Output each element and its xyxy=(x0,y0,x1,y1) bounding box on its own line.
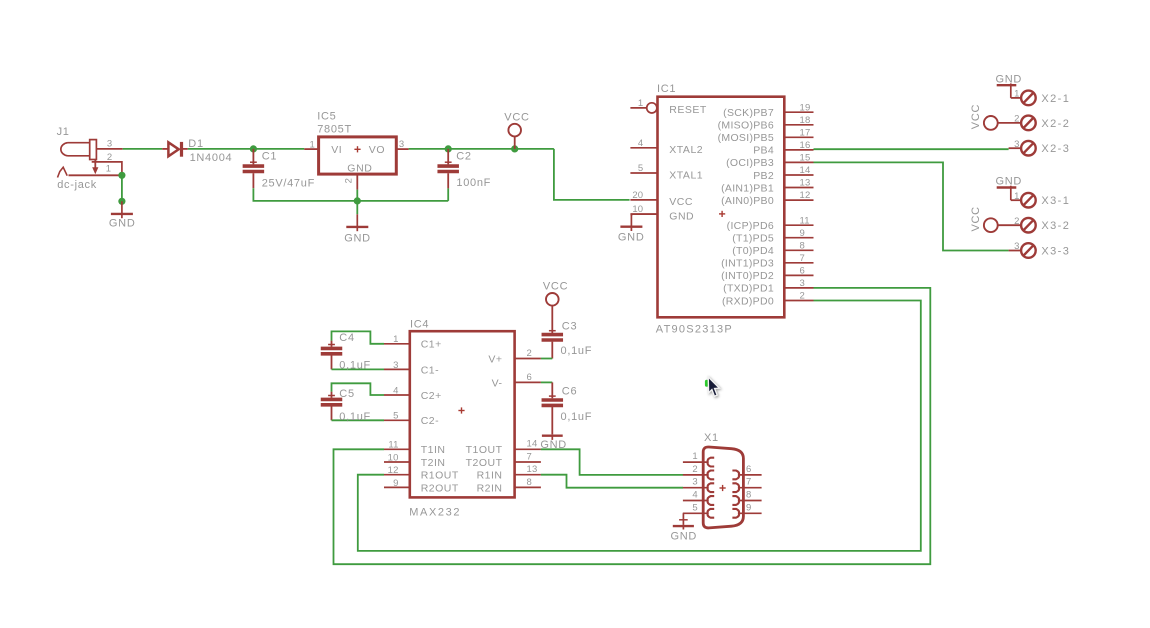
capacitor C6 0,1uF xyxy=(542,382,564,434)
svg-text:19: 19 xyxy=(800,102,811,113)
svg-text:VCC: VCC xyxy=(504,111,529,123)
pad X3-1 xyxy=(1011,193,1036,208)
IC4 pin 5 C2- xyxy=(384,419,410,421)
svg-text:14: 14 xyxy=(527,439,538,450)
svg-text:12: 12 xyxy=(800,190,811,201)
svg-text:V-: V- xyxy=(492,377,503,389)
svg-text:1: 1 xyxy=(692,451,697,462)
svg-text:9: 9 xyxy=(746,502,751,513)
IC1 pin 9 (T1)PD5 xyxy=(784,237,813,239)
junction at VCC xyxy=(511,145,518,152)
capacitor C5 0,1uF xyxy=(321,392,343,421)
junction at C1 xyxy=(250,145,257,152)
svg-text:20: 20 xyxy=(632,190,643,201)
svg-text:(INT0)PD2: (INT0)PD2 xyxy=(721,270,774,282)
X1 origin cross xyxy=(720,485,726,491)
microcontroller IC1 AT90S2313P xyxy=(658,97,785,318)
svg-text:2: 2 xyxy=(1014,216,1019,227)
wire IC5 output to VCC rail xyxy=(409,148,554,150)
svg-text:1: 1 xyxy=(638,98,643,109)
IC4 pin 13 R1IN xyxy=(515,474,541,476)
wire C5 bottom to IC4 pin 5 xyxy=(332,419,385,421)
svg-text:XTAL1: XTAL1 xyxy=(669,169,703,181)
svg-text:4: 4 xyxy=(692,490,697,501)
svg-text:(T0)PD4: (T0)PD4 xyxy=(732,245,774,257)
wire IC1 pin 16 to X2-3 xyxy=(814,148,1009,150)
J1 pin 3 xyxy=(96,148,122,150)
svg-text:C1: C1 xyxy=(262,151,277,163)
svg-text:T2IN: T2IN xyxy=(421,457,446,469)
wire X1 pin 5 to ground xyxy=(679,513,688,525)
svg-text:25V/47uF: 25V/47uF xyxy=(262,178,315,190)
svg-text:13: 13 xyxy=(800,178,811,189)
pad X2-2 xyxy=(1021,116,1036,131)
svg-text:5: 5 xyxy=(393,411,398,422)
svg-text:15: 15 xyxy=(800,153,811,164)
junction at IC5 GND xyxy=(354,197,361,204)
wire C5 top to IC4 pin 4 xyxy=(332,383,385,395)
svg-text:XTAL2: XTAL2 xyxy=(669,144,703,156)
wire J1 to ground xyxy=(121,175,123,201)
svg-text:3: 3 xyxy=(107,139,112,150)
svg-text:5: 5 xyxy=(638,163,643,174)
svg-text:GND: GND xyxy=(344,232,371,244)
svg-text:2: 2 xyxy=(107,152,112,163)
svg-text:(RXD)PD0: (RXD)PD0 xyxy=(722,295,774,307)
wire C2 to GND rail xyxy=(447,188,449,201)
svg-text:14: 14 xyxy=(800,165,811,176)
ground symbol below C6 xyxy=(542,434,563,440)
svg-text:(MOSI)PB5: (MOSI)PB5 xyxy=(718,132,774,144)
svg-text:1: 1 xyxy=(393,334,398,345)
wire VCC rail to IC1 pin 20 xyxy=(554,149,630,200)
VCC supply symbol at X2-2 xyxy=(984,116,1021,130)
IC4 pin 9 R2OUT xyxy=(384,486,410,488)
wire T1OUT to X1 pin 2 xyxy=(541,449,683,475)
wire R1IN to X1 pin 3 xyxy=(541,475,683,488)
IC1 pin 3 (TXD)PD1 xyxy=(784,287,813,289)
svg-text:PB2: PB2 xyxy=(753,170,774,182)
X1 pin 4 xyxy=(683,496,714,505)
svg-text:R1IN: R1IN xyxy=(477,470,503,482)
IC5 origin cross xyxy=(354,146,360,152)
svg-text:1N4004: 1N4004 xyxy=(190,152,233,164)
svg-text:10: 10 xyxy=(388,452,399,463)
svg-text:GND: GND xyxy=(347,163,372,175)
svg-text:1: 1 xyxy=(310,140,315,151)
IC5 pin 2 GND stub xyxy=(356,174,358,190)
svg-text:3: 3 xyxy=(800,278,805,289)
svg-text:0,1uF: 0,1uF xyxy=(561,345,593,357)
mouse cursor xyxy=(705,377,720,396)
svg-text:(AIN1)PB1: (AIN1)PB1 xyxy=(721,182,774,194)
svg-text:8: 8 xyxy=(800,240,805,251)
IC4 pin 3 C1- xyxy=(384,368,410,370)
svg-text:13: 13 xyxy=(527,464,538,475)
svg-text:IC5: IC5 xyxy=(317,111,336,123)
svg-text:2: 2 xyxy=(692,464,697,475)
svg-text:RESET: RESET xyxy=(669,104,707,116)
svg-text:0,1uF: 0,1uF xyxy=(339,411,371,423)
svg-text:11: 11 xyxy=(388,440,398,451)
ground symbol below J1 xyxy=(111,201,133,218)
svg-text:7805T: 7805T xyxy=(317,123,352,135)
svg-text:8: 8 xyxy=(527,477,532,488)
capacitor C3 0,1uF xyxy=(542,331,564,359)
ground symbol below IC1 pin 10 xyxy=(620,214,642,231)
svg-text:dc-jack: dc-jack xyxy=(57,179,97,191)
pad X2-1 xyxy=(1011,91,1036,106)
IC1 pin 15 (OCI)PB3 xyxy=(784,161,813,163)
IC4 origin cross xyxy=(458,407,464,413)
wire IC1 pin 3 TXD to MAX232 T1IN xyxy=(334,288,931,564)
svg-text:GND: GND xyxy=(618,231,645,243)
wire IC5 GND to ground xyxy=(356,190,358,215)
svg-text:C2: C2 xyxy=(456,151,471,163)
svg-text:2: 2 xyxy=(527,348,532,359)
svg-text:C2+: C2+ xyxy=(421,390,442,402)
svg-text:IC4: IC4 xyxy=(410,319,429,331)
svg-text:3: 3 xyxy=(1014,139,1019,150)
J1 pin 2 xyxy=(92,162,122,175)
IC5 pin 3 stub xyxy=(396,148,408,150)
svg-text:C5: C5 xyxy=(339,388,354,400)
svg-text:GND: GND xyxy=(996,176,1023,188)
svg-text:3: 3 xyxy=(692,477,697,488)
IC4 pin 1 C1+ xyxy=(384,343,410,345)
IC4 pin 8 R2IN xyxy=(515,486,541,488)
voltage regulator IC5 7805T xyxy=(319,137,397,174)
svg-text:GND: GND xyxy=(109,217,136,229)
svg-text:VI: VI xyxy=(331,144,342,156)
IC1 pin 17 (MOSI)PB5 xyxy=(784,136,813,138)
X1 pin 6 xyxy=(732,471,761,480)
svg-text:T1IN: T1IN xyxy=(421,444,446,456)
svg-text:GND: GND xyxy=(669,210,694,222)
IC5 pin 1 stub xyxy=(304,148,318,150)
svg-text:8: 8 xyxy=(746,490,751,501)
svg-text:C3: C3 xyxy=(562,321,577,333)
svg-text:T1OUT: T1OUT xyxy=(466,444,503,456)
IC1 pin 20 VCC xyxy=(630,199,657,201)
svg-text:16: 16 xyxy=(800,140,811,151)
svg-text:VCC: VCC xyxy=(970,104,982,129)
svg-text:7: 7 xyxy=(746,477,751,488)
IC4 pin 7 T2OUT xyxy=(515,461,541,463)
svg-text:(MISO)PB6: (MISO)PB6 xyxy=(718,120,774,132)
svg-text:18: 18 xyxy=(800,115,811,126)
svg-text:(INT1)PD3: (INT1)PD3 xyxy=(721,258,774,270)
svg-text:(TXD)PD1: (TXD)PD1 xyxy=(723,283,774,295)
IC4 pin 6 V- xyxy=(515,381,541,383)
diode D1 1N4004 xyxy=(162,142,188,157)
svg-text:2: 2 xyxy=(1014,114,1019,125)
svg-text:VCC: VCC xyxy=(970,206,982,231)
svg-text:X3-1: X3-1 xyxy=(1041,195,1070,207)
wire IC4 pin 2 to C3 xyxy=(541,358,552,360)
svg-text:R2OUT: R2OUT xyxy=(421,482,459,494)
svg-text:(OCI)PB3: (OCI)PB3 xyxy=(726,157,774,169)
wire C4 bottom to IC4 pin 3 xyxy=(332,368,385,370)
svg-text:GND: GND xyxy=(996,73,1023,85)
svg-text:12: 12 xyxy=(388,465,399,476)
svg-text:9: 9 xyxy=(393,478,398,489)
IC1 pin 6 (INT0)PD2 xyxy=(784,274,813,276)
svg-text:C6: C6 xyxy=(562,386,577,398)
junction on J1 ground wire xyxy=(118,198,125,205)
svg-text:C1+: C1+ xyxy=(421,339,442,351)
IC1 pin 18 (MISO)PB6 xyxy=(784,124,813,126)
IC1 pin 7 (INT1)PD3 xyxy=(784,262,813,264)
IC1 pin 11 (ICP)PD6 xyxy=(784,224,813,226)
IC1 pin 10 GND xyxy=(630,213,657,215)
X1 pin 9 xyxy=(732,509,761,518)
pad X2-3 xyxy=(1009,141,1036,156)
svg-text:11: 11 xyxy=(800,215,810,226)
IC1 pin 16 PB4 xyxy=(784,149,813,151)
svg-text:2: 2 xyxy=(343,178,354,183)
capacitor C2 100nF xyxy=(437,149,459,189)
svg-text:R2IN: R2IN xyxy=(477,482,503,494)
svg-text:17: 17 xyxy=(800,127,811,138)
svg-text:MAX232: MAX232 xyxy=(409,507,461,519)
svg-text:VO: VO xyxy=(369,144,385,156)
svg-text:100nF: 100nF xyxy=(456,177,491,189)
IC4 pin 4 C2+ xyxy=(384,394,410,396)
svg-text:X3-2: X3-2 xyxy=(1041,220,1070,232)
svg-text:7: 7 xyxy=(527,451,532,462)
ground symbol above X2-1 xyxy=(997,83,1017,98)
IC1 pin 4 XTAL2 xyxy=(630,147,657,149)
IC4 pin 10 T2IN xyxy=(384,461,410,463)
VCC supply symbol xyxy=(508,124,521,149)
ground symbol below IC5 xyxy=(346,214,368,231)
svg-text:X2-1: X2-1 xyxy=(1041,93,1070,105)
IC1 pin 1 RESET xyxy=(630,103,657,113)
IC1 pin 19 (SCK)PB7 xyxy=(784,111,813,113)
wire IC1 pin 2 RXD to MAX232 R1OUT xyxy=(358,301,921,551)
IC1 pin 2 (RXD)PD0 xyxy=(784,300,813,302)
svg-text:9: 9 xyxy=(800,228,805,239)
svg-text:VCC: VCC xyxy=(543,280,568,292)
svg-text:VCC: VCC xyxy=(669,196,693,208)
svg-text:X2-2: X2-2 xyxy=(1041,118,1070,130)
svg-text:(ICP)PD6: (ICP)PD6 xyxy=(727,220,774,232)
svg-text:3: 3 xyxy=(393,360,398,371)
J1 pin 1 xyxy=(69,174,122,176)
capacitor C1 25V/47uF xyxy=(243,149,265,188)
svg-text:1: 1 xyxy=(1014,89,1019,100)
X1 pin 8 xyxy=(732,496,761,505)
VCC supply symbol at X3-2 xyxy=(984,218,1021,232)
IC4 pin 11 T1IN xyxy=(384,448,410,450)
IC4 pin 14 T1OUT xyxy=(515,448,541,450)
svg-text:AT90S2313P: AT90S2313P xyxy=(656,324,733,336)
svg-text:3: 3 xyxy=(1014,241,1019,252)
IC1 pin 13 (AIN1)PB1 xyxy=(784,187,813,189)
ground symbol below X1 pin 5 xyxy=(673,525,694,530)
X1 pin 3 xyxy=(683,483,714,492)
junction at J1 pin 1 xyxy=(118,172,125,179)
pad X3-2 xyxy=(1021,218,1036,233)
IC1 pin 12 (AIN0)PB0 xyxy=(784,199,813,201)
svg-text:6: 6 xyxy=(746,464,751,475)
svg-text:5: 5 xyxy=(692,502,697,513)
svg-text:1: 1 xyxy=(1014,191,1019,202)
svg-text:4: 4 xyxy=(638,138,643,149)
wire D1 to IC5 input xyxy=(188,148,304,150)
svg-text:0,1uF: 0,1uF xyxy=(339,359,371,371)
svg-text:(T1)PD5: (T1)PD5 xyxy=(732,233,774,245)
wire C4 top to IC4 pin 1 xyxy=(332,331,385,343)
connector X1 DB9 xyxy=(703,447,743,528)
driver IC4 MAX232 xyxy=(410,331,515,497)
svg-text:6: 6 xyxy=(800,266,805,277)
wire IC1 pin 10 to ground xyxy=(631,214,656,216)
IC1 pin 5 XTAL1 xyxy=(630,172,657,174)
svg-text:4: 4 xyxy=(393,385,398,396)
svg-text:J1: J1 xyxy=(57,126,70,138)
svg-text:(AIN0)PB0: (AIN0)PB0 xyxy=(721,195,774,207)
svg-text:R1OUT: R1OUT xyxy=(421,470,459,482)
wire C1 to GND rail xyxy=(253,188,448,201)
svg-text:0,1uF: 0,1uF xyxy=(561,411,593,423)
svg-text:(SCK)PB7: (SCK)PB7 xyxy=(723,107,774,119)
svg-text:2: 2 xyxy=(800,291,805,302)
IC1 origin cross xyxy=(719,211,725,217)
svg-text:C2-: C2- xyxy=(421,415,439,427)
svg-text:T2OUT: T2OUT xyxy=(466,457,503,469)
VCC supply symbol above C3 xyxy=(546,293,559,333)
svg-text:X3-3: X3-3 xyxy=(1041,246,1070,258)
pad X3-3 xyxy=(1009,243,1036,258)
svg-text:X2-3: X2-3 xyxy=(1041,143,1070,155)
ground symbol above X3-1 xyxy=(997,186,1017,201)
X1 pin 7 xyxy=(732,483,761,492)
wire IC4 pin 6 to C6 xyxy=(541,381,552,383)
connector J1 dc-jack xyxy=(58,140,99,178)
svg-text:C1-: C1- xyxy=(421,364,439,376)
X1 pin 1 xyxy=(683,458,714,467)
svg-text:IC1: IC1 xyxy=(657,83,676,95)
junction at C2 xyxy=(445,145,452,152)
svg-text:V+: V+ xyxy=(488,353,502,365)
svg-text:GND: GND xyxy=(671,530,698,542)
svg-text:6: 6 xyxy=(527,372,532,383)
IC4 pin 12 R1OUT xyxy=(384,474,410,476)
IC4 pin 2 V+ xyxy=(515,358,541,360)
X1 pin 2 xyxy=(683,471,714,480)
svg-text:3: 3 xyxy=(399,139,404,150)
IC1 pin 14 PB2 xyxy=(784,174,813,176)
wire IC1 pin 15 to X3-3 xyxy=(814,162,1009,250)
IC1 pin 8 (T0)PD4 xyxy=(784,249,813,251)
svg-text:C4: C4 xyxy=(339,332,354,344)
capacitor C4 0,1uF xyxy=(321,341,343,370)
X1 pin 5 xyxy=(683,509,714,518)
wire J1-3 to D1 anode xyxy=(123,148,163,150)
svg-text:X1: X1 xyxy=(704,432,719,444)
svg-text:PB4: PB4 xyxy=(753,145,774,157)
svg-text:7: 7 xyxy=(800,253,805,264)
svg-text:1: 1 xyxy=(106,163,111,174)
